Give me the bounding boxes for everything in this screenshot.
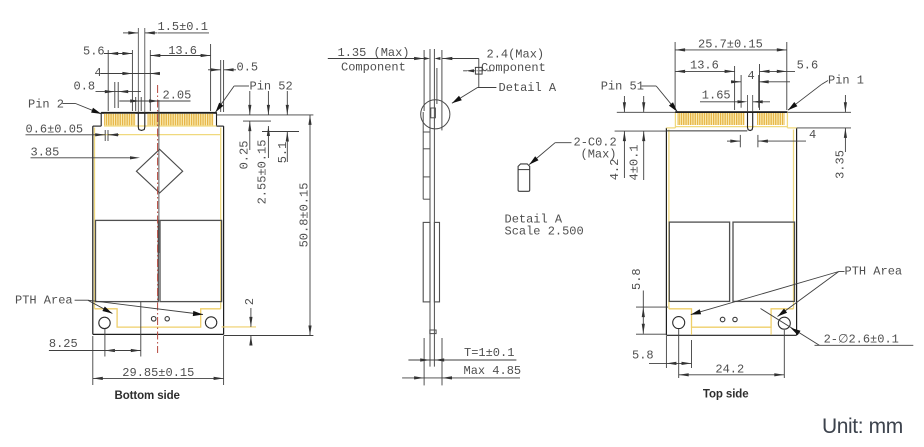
svg-text:2.05: 2.05: [163, 89, 192, 103]
svg-text:2: 2: [243, 298, 257, 305]
svg-text:0.25: 0.25: [238, 141, 252, 170]
svg-text:Detail A: Detail A: [499, 81, 557, 95]
svg-text:5.8: 5.8: [630, 268, 644, 290]
svg-text:4.2: 4.2: [608, 159, 622, 181]
svg-text:Unit: mm: Unit: mm: [822, 415, 903, 438]
svg-text:5.6: 5.6: [797, 59, 819, 73]
svg-text:25.7±0.15: 25.7±0.15: [698, 37, 763, 51]
svg-text:5.1: 5.1: [276, 142, 290, 164]
svg-text:Pin 52: Pin 52: [250, 80, 293, 94]
svg-text:Pin 2: Pin 2: [28, 98, 64, 112]
svg-text:8.25: 8.25: [49, 337, 78, 351]
svg-text:1.35 (Max): 1.35 (Max): [338, 46, 410, 60]
svg-text:13.6: 13.6: [690, 59, 719, 73]
svg-text:PTH Area: PTH Area: [15, 294, 73, 308]
svg-text:Max 4.85: Max 4.85: [464, 364, 522, 378]
svg-text:0.8: 0.8: [74, 80, 96, 94]
svg-text:Pin 51: Pin 51: [601, 80, 644, 94]
svg-text:PTH Area: PTH Area: [845, 265, 903, 279]
svg-text:Bottom side: Bottom side: [115, 390, 180, 402]
svg-text:2.4(Max): 2.4(Max): [487, 48, 545, 62]
svg-text:Component: Component: [341, 61, 406, 75]
svg-text:5.8: 5.8: [632, 349, 654, 363]
svg-text:Pin 1: Pin 1: [828, 74, 864, 88]
svg-text:T=1±0.1: T=1±0.1: [464, 346, 514, 360]
svg-text:Scale 2.500: Scale 2.500: [505, 225, 584, 239]
svg-text:4±0.1: 4±0.1: [628, 144, 642, 180]
svg-text:2.55±0.15: 2.55±0.15: [256, 140, 270, 205]
svg-text:Top side: Top side: [703, 388, 749, 400]
svg-text:29.85±0.15: 29.85±0.15: [122, 366, 194, 380]
svg-text:5.6: 5.6: [83, 45, 105, 59]
svg-text:4: 4: [748, 69, 755, 83]
svg-text:4: 4: [95, 66, 102, 80]
svg-text:1.5±0.1: 1.5±0.1: [158, 20, 208, 34]
svg-text:Component: Component: [481, 61, 546, 75]
svg-text:2-∅2.6±0.1: 2-∅2.6±0.1: [824, 333, 899, 347]
svg-text:50.8±0.15: 50.8±0.15: [297, 183, 311, 248]
svg-text:1.65: 1.65: [702, 88, 731, 102]
svg-text:4: 4: [809, 128, 816, 142]
svg-text:3.35: 3.35: [833, 150, 847, 179]
svg-text:24.2: 24.2: [715, 363, 744, 377]
svg-text:0.5: 0.5: [237, 61, 259, 75]
